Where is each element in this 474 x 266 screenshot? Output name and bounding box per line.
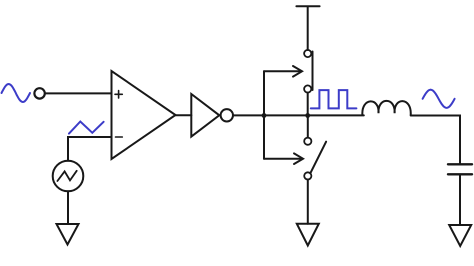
wire inverter to switches xyxy=(233,114,364,116)
capacitor C1 xyxy=(448,163,472,165)
PWM square waveform label xyxy=(311,90,357,108)
ground (left) xyxy=(57,224,79,245)
wire node B to switch S2 xyxy=(307,116,309,138)
op-amp + label xyxy=(115,91,122,98)
wire source to ground xyxy=(67,191,69,224)
wire switch S1 to node B xyxy=(307,93,309,116)
wire switch S2 to ground xyxy=(307,180,309,224)
ground (middle) xyxy=(297,224,319,246)
source V1 xyxy=(53,161,84,192)
op-amp U1 xyxy=(112,71,176,159)
wire control branch vertical xyxy=(263,71,265,158)
positive supply rail xyxy=(296,6,319,50)
wire - input xyxy=(68,137,112,161)
ground (right) xyxy=(449,225,471,246)
input sine waveform label xyxy=(2,84,31,102)
source V1 triangle symbol xyxy=(57,171,76,181)
node B junction xyxy=(305,113,310,118)
output sine waveform label xyxy=(423,90,455,108)
switch S2 (lower, open) xyxy=(304,138,311,145)
wire inductor to output node xyxy=(411,116,460,164)
node A junction xyxy=(262,113,267,118)
wire input to op-amp + xyxy=(45,92,112,94)
wire control arrow upper xyxy=(264,70,300,72)
inductor L1 xyxy=(362,101,410,115)
op-amp - label xyxy=(116,136,123,138)
input terminal xyxy=(34,88,44,98)
wire control arrow lower xyxy=(264,158,300,160)
wire capacitor to ground xyxy=(459,176,461,226)
switch S1 (upper, closed) xyxy=(304,50,311,57)
triangle wave label xyxy=(69,122,104,134)
wire op-amp output xyxy=(176,114,192,116)
inverter bubble xyxy=(221,109,233,121)
inverter U2 xyxy=(191,94,219,137)
